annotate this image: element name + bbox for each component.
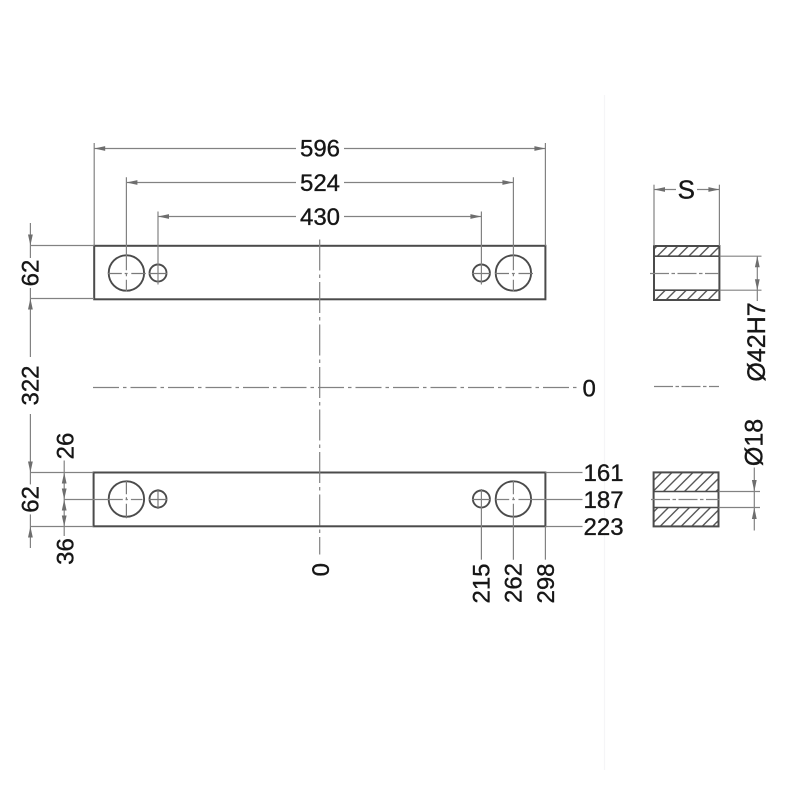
svg-text:26: 26	[52, 433, 79, 460]
svg-text:S: S	[678, 175, 695, 205]
dimension text 26	[52, 433, 79, 460]
section S block	[650, 246, 719, 300]
dimension Ø42H7	[719, 256, 771, 382]
bottom bar hole big left	[109, 480, 144, 518]
svg-text:36: 36	[52, 538, 79, 565]
extension line hole center bottom bar	[64, 499, 142, 501]
svg-text:298: 298	[533, 563, 560, 603]
dimension S	[654, 175, 719, 246]
top bar hole big right	[495, 255, 533, 290]
svg-text:0: 0	[583, 375, 596, 402]
dimension text 62 bottom	[18, 484, 45, 514]
faint page divider line	[604, 95, 606, 770]
svg-text:62: 62	[18, 260, 45, 287]
svg-text:Ø42H7: Ø42H7	[743, 302, 771, 381]
left dimension column 2 line	[63, 461, 65, 537]
horizontal centerline	[93, 387, 578, 389]
top bar hole small right	[472, 265, 491, 282]
label 0 bottom rotated	[308, 563, 335, 576]
dimension text 322	[18, 357, 45, 414]
svg-text:262: 262	[501, 563, 528, 603]
svg-text:322: 322	[18, 365, 45, 405]
svg-text:187: 187	[584, 487, 624, 514]
svg-text:223: 223	[584, 514, 624, 541]
svg-text:215: 215	[469, 563, 496, 603]
dimension Ø18	[719, 419, 769, 531]
leader line 161	[545, 460, 623, 487]
svg-text:Ø18: Ø18	[741, 419, 769, 466]
leader line 223	[545, 514, 623, 541]
top bar	[94, 246, 545, 299]
bottom bar hole big right	[496, 481, 531, 516]
dimension 596	[94, 136, 545, 246]
bottom bar	[94, 473, 546, 527]
section gap centerline	[654, 386, 719, 388]
extension lines bottom bar left	[30, 473, 93, 527]
label 0 right	[583, 375, 596, 402]
svg-text:430: 430	[300, 204, 340, 231]
bottom bar hole small left	[149, 489, 168, 509]
top bar hole small left	[149, 265, 168, 282]
ordinate line 215	[469, 489, 496, 604]
svg-text:161: 161	[584, 460, 624, 487]
extension lines top bar left	[30, 246, 94, 299]
dimension text 62 top	[18, 258, 45, 288]
leader line 187	[496, 487, 624, 514]
section Ø18 block	[651, 472, 719, 526]
svg-text:62: 62	[18, 486, 45, 513]
top bar hole big left	[108, 255, 146, 290]
left dimension column 1 line	[29, 223, 31, 548]
ordinate line 298	[533, 526, 560, 603]
bottom bar hole small right	[472, 491, 491, 508]
svg-text:0: 0	[308, 563, 335, 576]
dimension 430	[158, 204, 481, 284]
ordinate line 262	[501, 480, 528, 603]
arrows left column 1	[28, 235, 33, 538]
vertical centerline	[319, 240, 321, 555]
dimension text 36	[52, 538, 79, 565]
arrows left column 2	[62, 473, 67, 527]
dimension 524	[126, 170, 513, 292]
svg-text:596: 596	[300, 136, 340, 163]
svg-text:524: 524	[300, 170, 340, 197]
